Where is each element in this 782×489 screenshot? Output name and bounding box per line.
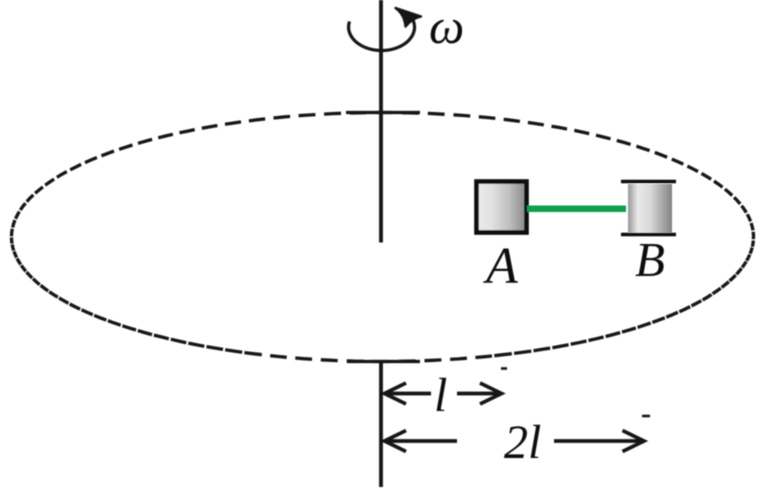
block A xyxy=(477,182,527,233)
block B bottom flange xyxy=(621,233,676,236)
block B top flange xyxy=(621,180,676,183)
tick above 2l arrowhead xyxy=(642,415,650,418)
arrow l right shaft xyxy=(457,392,498,396)
top-center solid dash of path xyxy=(346,111,420,114)
arrow 2l left shaft xyxy=(386,439,457,443)
arrow l left shaft xyxy=(386,392,431,396)
svg-text:ω: ω xyxy=(429,0,464,54)
arrow l right head xyxy=(480,383,502,404)
rotation axis upper segment xyxy=(379,0,383,243)
rotation axis lower segment xyxy=(379,361,383,487)
rotation arrowhead xyxy=(396,8,422,27)
arrow 2l right head xyxy=(623,431,645,452)
dashed circular path (equal-angle dashed ellipse) xyxy=(12,113,754,362)
svg-text:l: l xyxy=(434,369,447,422)
arrow l left head xyxy=(385,383,407,404)
arrow 2l right shaft xyxy=(554,439,641,443)
block B body xyxy=(628,184,672,233)
svg-text:2l: 2l xyxy=(504,416,541,469)
svg-text:B: B xyxy=(635,232,665,287)
string A-B (green) xyxy=(527,206,626,213)
rotation direction arc xyxy=(349,20,415,50)
arrow 2l left head xyxy=(385,431,407,452)
svg-text:A: A xyxy=(483,238,518,295)
tick above l arrowhead xyxy=(501,367,507,370)
bottom-center solid dash of path xyxy=(347,360,420,363)
